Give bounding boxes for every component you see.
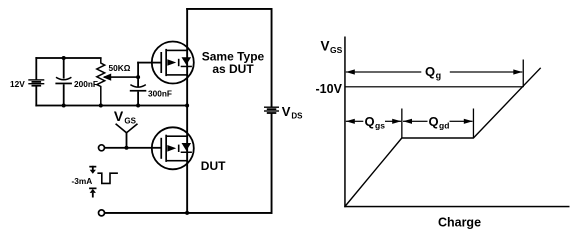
wire: battery circuit bottom rail [35,105,188,107]
current source -3mA: bottom bar [89,188,96,190]
junction dot: bottom rail to main vertical [185,211,189,215]
potentiometer R1 wiper arrow line [104,76,139,78]
Qgs right arrowhead [392,119,401,124]
svg-text:Charge: Charge [438,216,481,230]
capacitor C1 200nF: straight plate [55,83,72,85]
pulse waveform symbol [97,173,118,183]
svg-text:Q: Q [425,64,435,79]
capacitor C1 200nF: curved plate [56,77,71,80]
wire: right vertical of drain loop (lower part, from VDS battery) [271,113,273,214]
junction dot: wiper / 300nF node [136,75,140,79]
svg-text:V: V [114,108,124,124]
battery VDS: plates [264,107,279,114]
svg-text:GS: GS [330,45,343,55]
svg-text:GS: GS [124,117,136,126]
current source -3mA: top pin bar [89,166,96,168]
capacitor C1 200nF: top stem [63,57,65,79]
svg-text:V: V [321,38,330,53]
capacitor C2 300nF: straight plate [130,90,147,92]
wire: horizontal to gate of Q1 [137,62,161,64]
junction dot: 300nF bottom [136,104,140,108]
potentiometer R1 wiper arrowhead [103,74,112,81]
junction dot: pot bottom [99,104,103,108]
svg-text:gs: gs [375,120,385,130]
current source -3mA: bottom stem [92,193,94,198]
svg-text:Q: Q [365,114,375,129]
Qgd arrow line left piece [403,121,428,122]
capacitor C2 300nF: top stem [137,77,139,87]
Qg left arrowhead [346,69,355,74]
svg-text:DS: DS [291,112,303,121]
mosfet Q1 same type as DUT [152,42,194,84]
junction dot: probe node [125,146,129,150]
Qgd arrow line right piece [450,121,473,122]
Qg arrow line right piece [450,71,523,72]
gate charge curve [345,68,541,207]
capacitor C2 300nF: bottom stem [137,92,139,106]
svg-text:12V: 12V [10,79,25,89]
Qgd left arrowhead [403,119,412,124]
Qgs arrow line right piece [385,121,401,122]
current source -3mA: down arrowhead [90,170,96,174]
svg-text:gd: gd [439,120,449,130]
junction dot: 200nF bottom [62,104,66,108]
svg-text:Q: Q [429,114,439,129]
Qgs left arrowhead [346,119,355,124]
svg-text:g: g [436,71,442,81]
svg-text:50KΩ: 50KΩ [109,63,131,73]
wire: VGS input to gate of Q2 [105,147,161,149]
wire: battery top rail to pot [35,57,101,59]
svg-text:DUT: DUT [201,159,226,173]
terminal: VGS input (open circle) [99,145,105,151]
-10V reference line [345,86,524,87]
wire: wiper node up to gate level [137,62,139,78]
svg-text:200nF: 200nF [74,79,98,89]
svg-text:V: V [282,104,291,119]
capacitor C2 300nF: curved plate [130,85,145,88]
Qgd right arrowhead [464,119,473,124]
tick at end of Qgd [473,109,474,139]
wire: right vertical of drain loop (upper part, to VDS battery) [271,8,273,107]
tick at end of Qgs [401,109,402,139]
svg-text:-10V: -10V [316,82,343,96]
wire: main drain-source vertical line [186,8,188,214]
tick at end of Qg [523,60,524,88]
capacitor C1 200nF: bottom stem [63,84,65,105]
potentiometer R1 50K zigzag [97,58,105,106]
current source -3mA: top stem [92,166,94,171]
battery V1 12V: vertical leads [35,57,37,106]
svg-text:-3mA: -3mA [72,176,93,186]
svg-text:300nF: 300nF [148,88,172,98]
svg-text:as DUT: as DUT [212,62,254,76]
wire: bottom rail [105,212,273,214]
junction dot: rail to main vertical [185,104,189,108]
Qg arrow line left piece [346,71,422,72]
x axis [344,206,569,208]
probe fork for VGS measurement [116,124,138,133]
mosfet Q2 DUT [152,127,194,169]
wire: top rail of drain loop [186,8,272,10]
Qgs arrow line left piece [346,121,364,122]
current source -3mA: up arrowhead [90,189,96,193]
terminal: bottom return (open circle) [99,210,105,216]
battery V1 12V: plates [28,79,44,86]
Qg right arrowhead [513,69,522,74]
y axis [344,37,346,208]
junction dot: 200nF top [62,56,66,60]
